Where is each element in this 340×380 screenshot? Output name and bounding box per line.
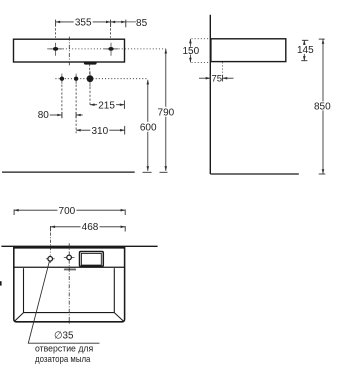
dimension 75 (trap offset) — [199, 74, 234, 85]
svg-text:310: 310 — [91, 126, 108, 137]
dimension 700 (overall width) — [14, 206, 125, 217]
right supply point — [74, 74, 78, 84]
plan-view center line — [68, 243, 70, 325]
left fixing hole — [49, 43, 63, 56]
soap dish recess outer — [80, 252, 104, 267]
basin right corner diagonal — [114, 313, 123, 322]
svg-text:145: 145 — [297, 45, 314, 56]
svg-text:468: 468 — [82, 222, 99, 233]
faucet hole — [64, 255, 75, 260]
dimension 145 (front height) — [297, 40, 314, 60]
rear-view floor line — [2, 171, 135, 173]
dimension 85 (hole to edge) — [111, 18, 148, 29]
side-view wall line — [209, 15, 211, 174]
dimension 790 (hole height) — [157, 49, 174, 172]
basin left wall edge — [23, 268, 25, 312]
dimension 310 (supply to edge) — [76, 126, 125, 137]
dimension 80 (supply spacing) — [38, 110, 83, 121]
side-view floor line — [210, 173, 298, 175]
left supply point — [60, 74, 64, 84]
svg-text:отверстие для: отверстие для — [35, 344, 93, 354]
svg-text:600: 600 — [140, 122, 157, 133]
right fixing hole — [104, 43, 118, 56]
svg-text:дозатора мыла: дозатора мыла — [35, 354, 91, 364]
svg-text:790: 790 — [158, 107, 175, 118]
extension from left supply — [61, 85, 63, 119]
dimension 215 (drain to edge) — [90, 100, 124, 111]
soap dish recess inner — [81, 253, 101, 265]
soap dispenser hole — [46, 255, 55, 264]
extension from right supply — [75, 85, 77, 134]
plan-view wall line — [1, 245, 157, 247]
plan-view rim inner edge — [14, 266, 125, 268]
svg-text:75: 75 — [212, 74, 223, 85]
dimension 600 (drain height) — [140, 80, 157, 173]
svg-text:85: 85 — [136, 18, 148, 29]
basin floor edge — [24, 312, 115, 314]
fixing-holes axis line — [47, 48, 166, 50]
washbasin rear-view outline — [14, 39, 125, 62]
connections axis line — [55, 78, 147, 80]
rear-view drain boss — [84, 62, 97, 65]
cropped edge mark — [0, 281, 2, 285]
svg-text:700: 700 — [59, 206, 76, 217]
svg-text:355: 355 — [75, 18, 92, 29]
dimension 468 (soap hole to edge) — [51, 222, 126, 253]
drain point — [87, 71, 94, 86]
basin left corner diagonal — [15, 313, 24, 322]
dimension 355 (hole spacing) — [56, 17, 111, 37]
svg-text:150: 150 — [182, 46, 199, 57]
rear-view vertical center line — [68, 37, 70, 66]
dimension 150 (depth at wall) — [182, 39, 209, 63]
svg-text:850: 850 — [314, 102, 331, 113]
basin right wall edge — [113, 268, 115, 312]
extension from drain — [89, 87, 91, 105]
svg-text:∅35: ∅35 — [54, 330, 74, 341]
leader line to soap hole — [28, 261, 99, 343]
drain boss center dash — [89, 64, 91, 75]
plan-view outer outline — [14, 248, 125, 322]
svg-text:215: 215 — [98, 100, 115, 111]
side-view basin profile — [211, 39, 286, 62]
dimension 850 (rim height) — [314, 39, 331, 174]
trap center dotted line — [222, 62, 224, 81]
svg-text:80: 80 — [38, 110, 50, 121]
overflow slot — [64, 269, 76, 271]
